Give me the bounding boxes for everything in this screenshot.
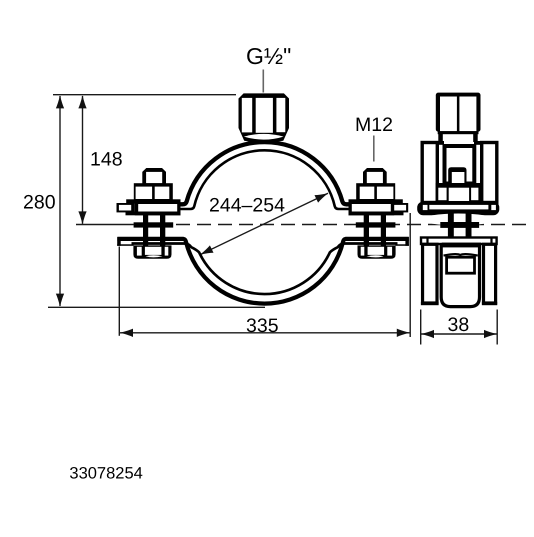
svg-text:335: 335 [246,315,279,337]
svg-text:33078254: 33078254 [69,465,142,483]
svg-text:244–254: 244–254 [209,195,285,217]
svg-text:148: 148 [90,149,123,171]
svg-text:280: 280 [23,192,56,214]
svg-text:G½": G½" [246,43,291,69]
svg-text:M12: M12 [355,114,393,136]
svg-text:38: 38 [448,314,470,336]
